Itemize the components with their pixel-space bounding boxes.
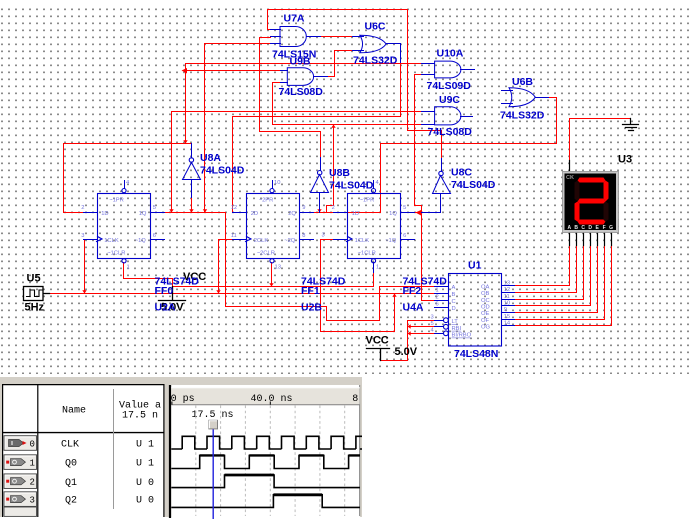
svg-text:74LS09D: 74LS09D <box>427 80 472 92</box>
row button 0 <box>4 436 37 451</box>
wire Q1 riser with jog <box>327 125 334 213</box>
svg-text:U6B: U6B <box>512 76 533 88</box>
waveform Q2 <box>171 495 360 508</box>
svg-text:C: C <box>581 225 585 231</box>
wire U6C output elbow <box>387 44 401 63</box>
svg-text:OD: OD <box>481 304 490 310</box>
svg-text:15: 15 <box>504 314 510 320</box>
svg-text:9: 9 <box>302 205 305 211</box>
wire U9B output up to U6C input2 <box>328 51 353 77</box>
wire U6C net down to FF1 D <box>233 117 242 213</box>
svg-text:OB: OB <box>481 291 490 297</box>
wire U8C output stub red <box>441 131 443 159</box>
junction dot CLK FF0 <box>82 290 86 293</box>
waveform Q0 <box>171 455 360 468</box>
svg-text:U 1: U 1 <box>136 459 154 470</box>
svg-text:3: 3 <box>322 233 325 239</box>
junction dot Q0-W1 <box>169 209 173 212</box>
junction dot VCC FF1 <box>269 283 273 286</box>
svg-text:U5: U5 <box>27 273 41 285</box>
ground symbol <box>623 119 639 131</box>
wire U8A input stub <box>191 180 193 199</box>
svg-text:14: 14 <box>504 321 511 327</box>
cursor line <box>212 429 214 519</box>
wire U8A output stub <box>191 144 193 158</box>
svg-text:2D: 2D <box>251 211 258 217</box>
svg-text:6: 6 <box>403 233 406 239</box>
arrow junction U8B input on Q1 <box>317 209 321 212</box>
svg-text:~1CLR: ~1CLR <box>358 251 376 257</box>
display CK pin black <box>569 161 571 171</box>
svg-text:U4A: U4A <box>403 302 424 314</box>
junction dot CLK FF1 <box>216 290 220 293</box>
svg-text:~1Q: ~1Q <box>135 238 147 244</box>
svg-text:U6C: U6C <box>365 21 386 33</box>
wire U7A output to U6C input1 <box>321 36 353 38</box>
inverter U8C 74LS04D <box>433 167 496 194</box>
junction dot Q1 riser <box>331 125 335 128</box>
wire Q1 right route over FF2 to U6B/U8C rail <box>381 144 557 213</box>
svg-text:2: 2 <box>81 205 84 211</box>
svg-text:LT: LT <box>452 319 459 325</box>
wire A: NOT-Q0 to U10A input1 <box>186 63 422 65</box>
svg-text:10: 10 <box>274 180 280 186</box>
svg-text:OA: OA <box>481 284 490 290</box>
svg-text:~2Q: ~2Q <box>284 238 296 244</box>
svg-text:FF1: FF1 <box>301 285 320 297</box>
AND gate U10A 74LS09D <box>422 48 475 93</box>
svg-text:17.5 ns: 17.5 ns <box>192 410 234 421</box>
svg-text:~2CLR: ~2CLR <box>257 251 275 257</box>
wires U1 outputs to display segments <box>515 246 612 326</box>
svg-text:1Q: 1Q <box>389 211 397 217</box>
wire W1: Q0 to U9C input1 <box>172 112 422 213</box>
BCD decoder U1 74LS48N <box>431 260 515 361</box>
svg-text:CK: CK <box>566 175 574 181</box>
time ruler band <box>171 387 359 405</box>
svg-text:74LS04D: 74LS04D <box>451 179 496 191</box>
svg-text:U10A: U10A <box>437 48 464 60</box>
svg-text:U2B: U2B <box>301 302 322 314</box>
svg-text:BI/RBO: BI/RBO <box>452 333 472 339</box>
row button 2 <box>4 474 37 489</box>
svg-text:Q0: Q0 <box>65 459 77 470</box>
empty row button <box>4 507 37 516</box>
junction dot CLK FF2 riser <box>392 294 396 297</box>
svg-text:~1PR: ~1PR <box>109 198 124 204</box>
waveform panel background <box>171 385 360 517</box>
svg-text:4: 4 <box>126 180 130 186</box>
svg-text:VCC: VCC <box>366 335 389 347</box>
svg-text:OF: OF <box>481 318 490 324</box>
svg-text:C: C <box>452 299 456 305</box>
table header separator <box>3 432 164 434</box>
table column border 2 <box>113 389 115 509</box>
junction dot LT rail 2 <box>408 331 411 335</box>
svg-text:OC: OC <box>481 298 490 304</box>
D flip-flop U2A FF0 74LS74D <box>81 180 199 314</box>
svg-text:FF2: FF2 <box>403 285 422 297</box>
svg-text:2: 2 <box>332 205 335 211</box>
svg-text:9: 9 <box>504 307 507 313</box>
power VCC symbol 2 <box>367 349 390 361</box>
svg-text:1CLK: 1CLK <box>355 238 370 244</box>
panel divider <box>169 385 171 518</box>
inverter U8A 74LS04D <box>183 152 245 180</box>
svg-text:G: G <box>609 225 613 231</box>
svg-text:Q1: Q1 <box>65 478 77 489</box>
OR gate U6C 74LS32D <box>353 21 401 67</box>
svg-text:5: 5 <box>431 321 434 327</box>
wire B: NOT-Q0 to U9B input1 with arrow <box>186 70 281 72</box>
svg-text:5Hz: 5Hz <box>25 302 45 314</box>
wire Q2 down to U1 input C <box>422 213 435 301</box>
svg-text:1CLK: 1CLK <box>104 238 119 244</box>
wire FF2 preset-clear bottom blue part <box>373 263 375 273</box>
svg-text:10: 10 <box>504 300 510 306</box>
svg-text:11: 11 <box>504 294 510 300</box>
svg-text:U8B: U8B <box>329 167 350 179</box>
svg-text:U8C: U8C <box>451 167 472 179</box>
table column border 1 <box>37 385 39 517</box>
svg-text:~1CLR: ~1CLR <box>107 251 125 257</box>
display segment pins black <box>570 233 612 246</box>
arrow junction U8C input on Q2 <box>416 210 422 216</box>
svg-text:5: 5 <box>403 205 406 211</box>
svg-text:1: 1 <box>30 459 35 469</box>
svg-text:2Q: 2Q <box>288 211 296 217</box>
wire Q2 top route: FF2 Q up to U7A input1 <box>268 10 442 213</box>
junction dot NOT-Q0 <box>183 140 187 143</box>
svg-text:F: F <box>603 225 606 231</box>
svg-text:2: 2 <box>30 478 35 488</box>
wire Q2 net at FF2 output <box>415 212 422 214</box>
wire NOT-Q0 horizontal to FF0 D <box>64 144 192 213</box>
power VCC symbol 1 <box>159 287 186 301</box>
wire VCC net <box>124 263 374 287</box>
svg-text:74LS08D: 74LS08D <box>428 126 473 138</box>
svg-text:3: 3 <box>81 233 84 239</box>
svg-text:U3: U3 <box>618 154 632 166</box>
OR gate U6B 74LS32D <box>500 76 549 122</box>
svg-text:D: D <box>588 225 592 231</box>
svg-text:RBI: RBI <box>452 326 462 332</box>
svg-text:40.0 ns: 40.0 ns <box>251 394 293 405</box>
junction dot Q0-U7A <box>203 209 207 212</box>
svg-text:OE: OE <box>481 311 490 317</box>
AND gate U7A 74LS15N <box>271 13 321 61</box>
row button 3 <box>4 492 37 507</box>
svg-text:1: 1 <box>127 265 130 271</box>
svg-text:13: 13 <box>275 265 281 271</box>
svg-text:D: D <box>452 306 456 312</box>
wire U8B input stub <box>319 193 321 213</box>
svg-text:74LS04D: 74LS04D <box>200 165 245 177</box>
svg-text:5.0V: 5.0V <box>395 346 418 358</box>
svg-text:17.5 n: 17.5 n <box>122 411 158 422</box>
D flip-flop U4A FF2 74LS74D <box>322 180 448 314</box>
svg-text:U1: U1 <box>468 260 482 272</box>
waveform CLK <box>171 436 368 449</box>
svg-text:74LS48N: 74LS48N <box>454 348 498 360</box>
svg-text:FF0: FF0 <box>155 285 174 297</box>
wire U8C input stub <box>422 194 441 213</box>
wire CLK net <box>50 240 435 332</box>
wire Q1 net at FF1 output <box>307 212 381 214</box>
cursor handle <box>209 420 218 429</box>
svg-text:U 1: U 1 <box>136 440 154 451</box>
grid dashed lines <box>196 406 345 517</box>
svg-text:1Q: 1Q <box>139 211 147 217</box>
svg-text:U9C: U9C <box>439 94 460 106</box>
svg-text:U7A: U7A <box>284 13 305 25</box>
wire Q0 net at FF0 output <box>165 212 226 214</box>
wire Q1 upper route U9B.in2 U9C.in2 <box>273 83 422 125</box>
svg-text:5: 5 <box>153 205 156 211</box>
svg-text:1: 1 <box>436 288 439 294</box>
svg-text:0: 0 <box>30 439 35 449</box>
waveform Q1 <box>171 475 360 488</box>
wire U6B output down <box>549 98 557 144</box>
svg-text:12: 12 <box>504 287 510 293</box>
svg-text:B: B <box>574 225 578 231</box>
svg-text:1: 1 <box>376 265 379 271</box>
svg-text:A: A <box>567 225 571 231</box>
svg-text:1D: 1D <box>352 211 359 217</box>
svg-text:3: 3 <box>431 315 434 321</box>
svg-text:0 ps: 0 ps <box>171 394 195 405</box>
svg-text:OG: OG <box>481 325 491 331</box>
waveform window background <box>0 376 362 517</box>
signal table background <box>3 385 164 517</box>
svg-text:3: 3 <box>30 496 35 506</box>
table outer border <box>3 385 164 517</box>
wire NOT-Q1: U8B out to U7A input2 <box>260 38 321 158</box>
svg-text:U 0: U 0 <box>136 478 154 489</box>
input icon row 0 <box>9 439 24 446</box>
svg-text:6: 6 <box>436 302 439 308</box>
svg-text:8: 8 <box>352 394 358 405</box>
wire display CK to ground <box>570 119 631 161</box>
svg-text:U8A: U8A <box>200 152 221 164</box>
svg-text:2CLK: 2CLK <box>254 238 269 244</box>
seven-segment display U3 <box>563 172 619 233</box>
svg-text:74LS04D: 74LS04D <box>329 180 374 192</box>
svg-text:CLK: CLK <box>61 440 79 451</box>
svg-text:B: B <box>452 292 456 298</box>
svg-text:4: 4 <box>431 328 435 334</box>
row button 1 <box>4 455 37 470</box>
svg-text:A: A <box>452 285 456 291</box>
svg-text:U9B: U9B <box>290 56 311 68</box>
svg-text:6: 6 <box>153 233 156 239</box>
arrow junction on wire B <box>182 68 188 74</box>
wire NOT-Q0 vertical <box>185 64 187 144</box>
svg-text:~1Q: ~1Q <box>385 238 397 244</box>
svg-text:13: 13 <box>504 280 510 286</box>
wire Q0 down to U1 input A <box>226 213 435 321</box>
wire U6C output down <box>233 63 401 117</box>
svg-text:74LS32D: 74LS32D <box>353 55 398 67</box>
svg-text:8: 8 <box>302 233 305 239</box>
clock source U5 <box>24 287 50 301</box>
svg-text:12: 12 <box>231 205 237 211</box>
junction dot LT rail 1 <box>408 324 411 328</box>
svg-text:Name: Name <box>62 406 86 417</box>
svg-text:4: 4 <box>376 180 380 186</box>
svg-text:U 0: U 0 <box>136 496 154 507</box>
AND gate U9B 74LS08D <box>279 56 328 99</box>
arrow junction U8A input on Q0 <box>189 209 193 212</box>
svg-text:Q2: Q2 <box>65 496 77 507</box>
svg-text:1D: 1D <box>101 211 108 217</box>
svg-text:~2PR: ~2PR <box>259 198 274 204</box>
svg-text:74LS08D: 74LS08D <box>279 86 324 98</box>
wire LT RBI BI to VCC2 <box>381 321 435 361</box>
output icon row 1 <box>6 461 9 464</box>
ruler tick 40ns <box>172 402 270 405</box>
D flip-flop U2B FF1 74LS74D <box>231 180 346 314</box>
svg-text:2: 2 <box>436 295 439 301</box>
output icon row 3 <box>6 498 9 501</box>
svg-text:~1PR: ~1PR <box>360 198 375 204</box>
output icon row 2 <box>6 480 9 483</box>
inverter U8B 74LS04D <box>311 167 374 193</box>
AND gate U9C 74LS08D <box>422 94 473 138</box>
svg-text:11: 11 <box>231 233 237 239</box>
wire Q0 to U7A input3 <box>205 44 271 213</box>
svg-text:74LS32D: 74LS32D <box>500 110 545 122</box>
svg-text:U2A: U2A <box>155 302 176 314</box>
